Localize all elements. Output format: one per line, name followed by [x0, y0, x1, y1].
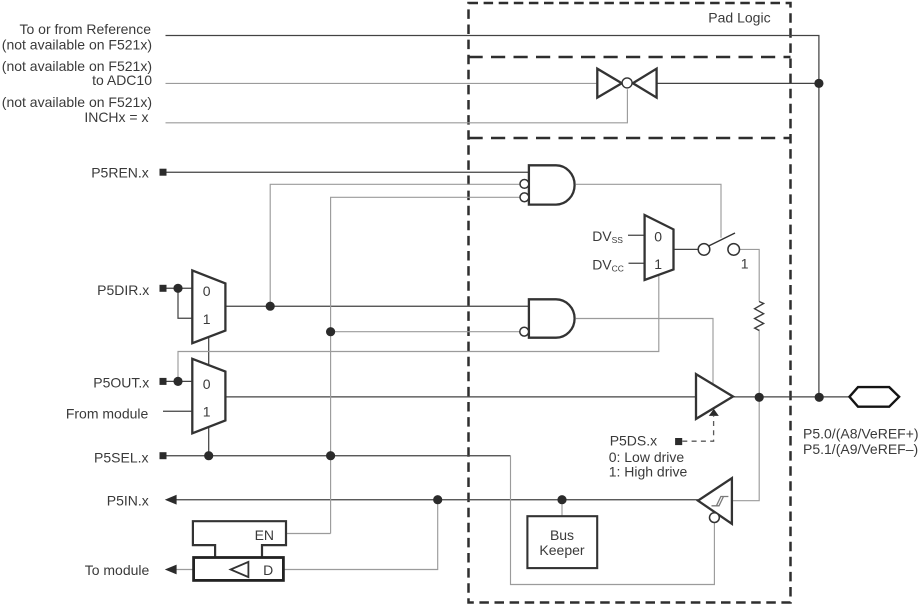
svg-text:From module: From module	[66, 405, 149, 421]
svg-text:1: 1	[203, 311, 211, 327]
svg-text:D: D	[263, 562, 273, 578]
svg-text:P5IN.x: P5IN.x	[107, 493, 149, 509]
svg-text:0: 0	[203, 283, 211, 299]
svg-text:P5.0/(A8/VeREF+): P5.0/(A8/VeREF+)	[803, 425, 918, 441]
svg-text:P5OUT.x: P5OUT.x	[93, 374, 149, 390]
svg-text:EN: EN	[255, 527, 274, 543]
svg-text:P5REN.x: P5REN.x	[91, 164, 149, 180]
svg-text:To or from Reference: To or from Reference	[20, 21, 152, 37]
svg-text:Pad Logic: Pad Logic	[708, 9, 770, 25]
svg-text:1: 1	[741, 256, 749, 272]
svg-text:INCHx = x: INCHx = x	[84, 109, 148, 125]
svg-text:(not available on F521x): (not available on F521x)	[2, 36, 152, 52]
svg-text:P5DIR.x: P5DIR.x	[97, 282, 149, 298]
svg-text:0: 0	[654, 229, 662, 245]
svg-text:P5.1/(A9/VeREF–): P5.1/(A9/VeREF–)	[803, 441, 918, 457]
svg-text:to ADC10: to ADC10	[92, 72, 152, 88]
svg-text:P5SEL.x: P5SEL.x	[94, 449, 148, 465]
svg-text:1: 1	[203, 404, 211, 420]
svg-text:0: Low drive: 0: Low drive	[609, 449, 685, 465]
svg-text:0: 0	[203, 376, 211, 392]
svg-text:1: 1	[654, 256, 662, 272]
svg-text:P5DS.x: P5DS.x	[610, 432, 657, 448]
svg-text:To module: To module	[85, 562, 150, 578]
svg-text:Bus: Bus	[550, 527, 574, 543]
svg-text:Keeper: Keeper	[539, 542, 584, 558]
svg-text:1: High drive: 1: High drive	[609, 464, 688, 480]
svg-text:(not available on F521x): (not available on F521x)	[2, 94, 152, 110]
